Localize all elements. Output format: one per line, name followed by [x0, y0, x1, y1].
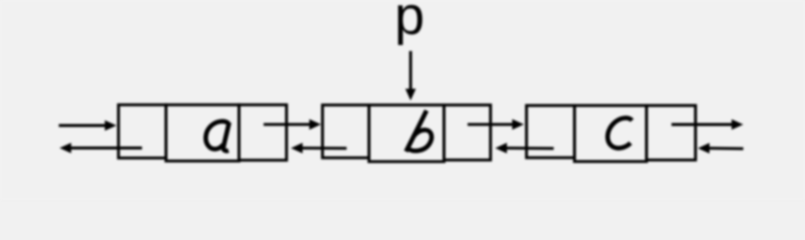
svg-text:p: p: [394, 0, 424, 46]
